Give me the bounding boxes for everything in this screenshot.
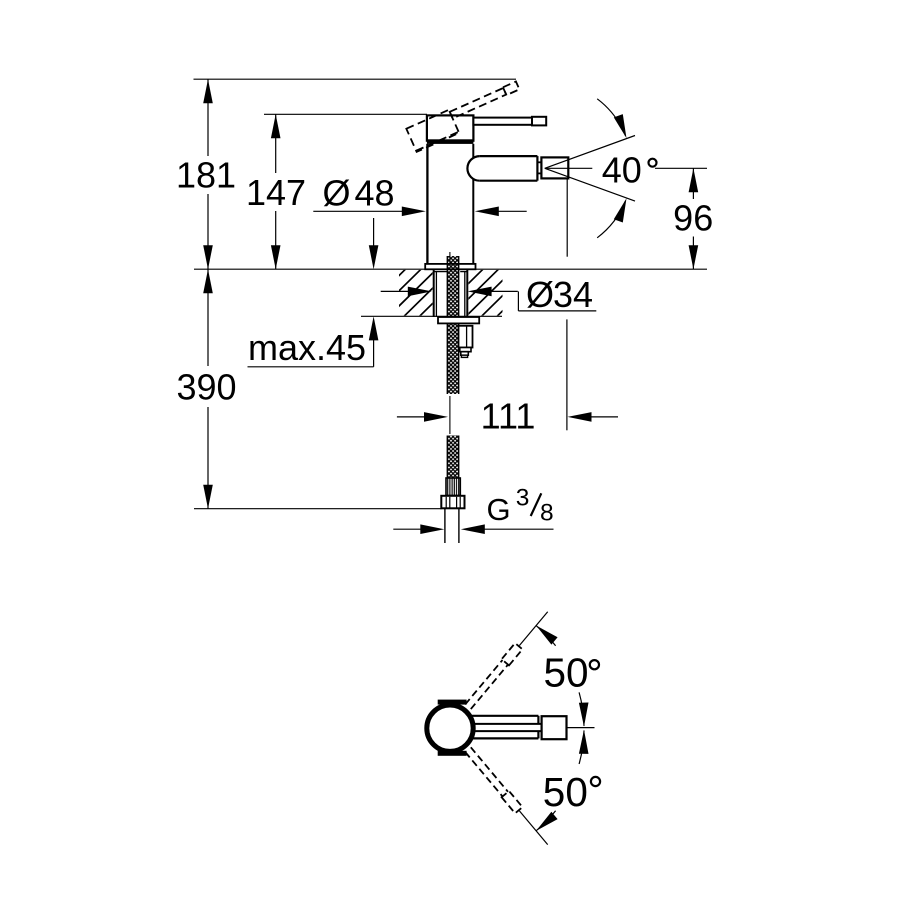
svg-text:96: 96 xyxy=(673,198,713,239)
svg-text:390: 390 xyxy=(176,367,236,408)
svg-text:8: 8 xyxy=(540,500,554,527)
svg-text:Ø: Ø xyxy=(323,173,351,214)
svg-text:48: 48 xyxy=(355,173,395,214)
svg-text:181: 181 xyxy=(176,155,236,196)
svg-text:50: 50 xyxy=(543,769,588,815)
svg-text:111: 111 xyxy=(481,396,536,437)
svg-text:34: 34 xyxy=(553,274,593,315)
svg-text:max.45: max.45 xyxy=(248,327,366,368)
svg-text:G: G xyxy=(487,492,511,527)
svg-text:50: 50 xyxy=(544,650,589,696)
svg-text:147: 147 xyxy=(246,172,306,213)
svg-text:40: 40 xyxy=(602,149,642,190)
svg-text:3: 3 xyxy=(516,485,530,512)
svg-text:Ø: Ø xyxy=(526,274,554,315)
